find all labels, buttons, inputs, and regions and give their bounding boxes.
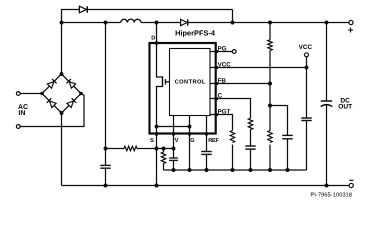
capacitor output bulk bbox=[321, 101, 333, 186]
resistor feedback upper bbox=[268, 23, 272, 84]
node rail-bypass right junction bbox=[231, 21, 235, 25]
wire FB bbox=[210, 83, 270, 85]
node FBcap-bus junction bbox=[286, 168, 290, 172]
label DC OUT bbox=[338, 98, 352, 111]
PG terminal bbox=[232, 50, 236, 54]
pin tick S bbox=[155, 132, 158, 135]
wire source to bottom rail bbox=[157, 87, 163, 186]
node rail-filter junction bbox=[104, 21, 108, 25]
pin tick C bbox=[215, 97, 218, 100]
node FB junction bbox=[268, 82, 272, 86]
DC plus terminal bbox=[349, 20, 353, 24]
bypass diode bbox=[79, 6, 87, 13]
node filter-bottom junction bbox=[104, 184, 108, 188]
wire feedback bottom bbox=[269, 145, 271, 171]
wire drain from rail bbox=[157, 23, 163, 78]
wire sense line bbox=[106, 148, 174, 150]
wire feedback cap branch bbox=[270, 106, 288, 136]
wire bypass top rail bbox=[62, 10, 233, 75]
node FB-bus junction bbox=[268, 168, 272, 172]
label AC IN bbox=[18, 104, 28, 117]
pin tick D bbox=[155, 42, 158, 45]
node source-bottom junction bbox=[155, 184, 159, 188]
svg-text:G: G bbox=[190, 137, 195, 144]
node source-link junction bbox=[155, 125, 159, 129]
wire feedback mid bbox=[269, 84, 271, 131]
node outputcap-bottom junction bbox=[325, 184, 329, 188]
resistor C branch bbox=[248, 118, 252, 129]
svg-text:IN: IN bbox=[18, 110, 25, 117]
pin tick V bbox=[172, 132, 175, 135]
VCC terminal bbox=[305, 53, 309, 57]
svg-text:S: S bbox=[150, 137, 154, 144]
wire V pin bbox=[173, 116, 175, 159]
node rail-output junction bbox=[325, 21, 329, 25]
svg-text:OUT: OUT bbox=[338, 104, 352, 111]
wire internal ground link bbox=[157, 126, 190, 128]
control block bbox=[170, 49, 211, 116]
wire output branch bbox=[326, 23, 328, 102]
wire filter branch bbox=[105, 23, 107, 166]
wire VCC vertical bbox=[306, 57, 308, 118]
boost inductor L1 bbox=[121, 19, 141, 22]
wire G pin bbox=[189, 116, 191, 171]
svg-text:VCC: VCC bbox=[299, 44, 313, 51]
capacitor REF bbox=[201, 152, 211, 171]
wire C branch bbox=[210, 99, 251, 119]
label minus bbox=[349, 179, 353, 181]
node ground-link junction bbox=[188, 125, 192, 129]
svg-text:D: D bbox=[151, 35, 155, 41]
node VCC junction bbox=[305, 66, 309, 70]
label plus bbox=[348, 28, 353, 33]
svg-text:PI-7965-100318: PI-7965-100318 bbox=[310, 191, 352, 198]
svg-text:REF: REF bbox=[208, 138, 219, 144]
wire ground bus bbox=[164, 169, 307, 171]
node rail-feedback junction bbox=[268, 21, 272, 25]
resistor feedback lower bbox=[268, 131, 272, 143]
capacitor feedback bbox=[282, 135, 292, 170]
wire C branch mid bbox=[250, 130, 252, 147]
wire bottom rail bbox=[62, 185, 350, 187]
node PGT-bus junction bbox=[231, 168, 235, 172]
AC terminal lower bbox=[16, 125, 20, 129]
pin tick FB bbox=[215, 82, 218, 85]
node filter-sense junction bbox=[104, 147, 108, 151]
wire bridge negative to bottom rail bbox=[61, 113, 63, 186]
node sense-V junction bbox=[172, 147, 176, 151]
svg-text:V: V bbox=[175, 138, 179, 144]
DC minus terminal bbox=[349, 183, 353, 187]
svg-text:CONTROL: CONTROL bbox=[175, 79, 206, 86]
boost diode bbox=[181, 19, 188, 25]
bridge rectifier BR1 bbox=[40, 72, 83, 115]
wire VCC bbox=[210, 67, 307, 69]
node FB divider junction bbox=[268, 104, 272, 108]
resistor sense bbox=[124, 146, 137, 151]
wire AC upper bbox=[20, 93, 42, 95]
node sense-R junction bbox=[162, 147, 166, 151]
pin tick VCC bbox=[215, 66, 218, 69]
wire AC lower bbox=[20, 94, 84, 127]
pin tick REF bbox=[205, 132, 208, 135]
pin tick PG bbox=[215, 50, 218, 53]
wire PG bbox=[210, 51, 232, 53]
node rail-bypass left junction bbox=[60, 21, 64, 25]
capacitor VCC bbox=[301, 118, 311, 170]
node G-bus junction bbox=[188, 168, 192, 172]
node C-bus junction bbox=[249, 168, 253, 172]
pin tick G bbox=[188, 132, 191, 135]
capacitor input filter bbox=[100, 165, 110, 185]
pin tick PGT bbox=[215, 113, 218, 116]
wire main rectified rail bbox=[62, 22, 349, 24]
capacitor V filter bbox=[169, 158, 178, 170]
IC U1 HiperPFS-4 body bbox=[150, 43, 216, 134]
wire REF pin bbox=[206, 116, 208, 152]
node Vcap-bus junction bbox=[172, 168, 176, 172]
wire PGT bottom bbox=[232, 145, 234, 171]
node sense-S junction bbox=[155, 147, 159, 151]
svg-text:HiperPFS-4: HiperPFS-4 bbox=[175, 29, 216, 38]
capacitor C branch bbox=[245, 146, 255, 170]
resistor PGT bbox=[230, 131, 234, 143]
wire PGT branch bbox=[210, 115, 233, 131]
AC terminal upper bbox=[16, 92, 20, 96]
transistor Q internal MOSFET bbox=[163, 76, 170, 87]
node REF-bus junction bbox=[205, 168, 209, 172]
resistor V filter bbox=[161, 149, 165, 171]
node rail-drain junction bbox=[155, 21, 159, 25]
